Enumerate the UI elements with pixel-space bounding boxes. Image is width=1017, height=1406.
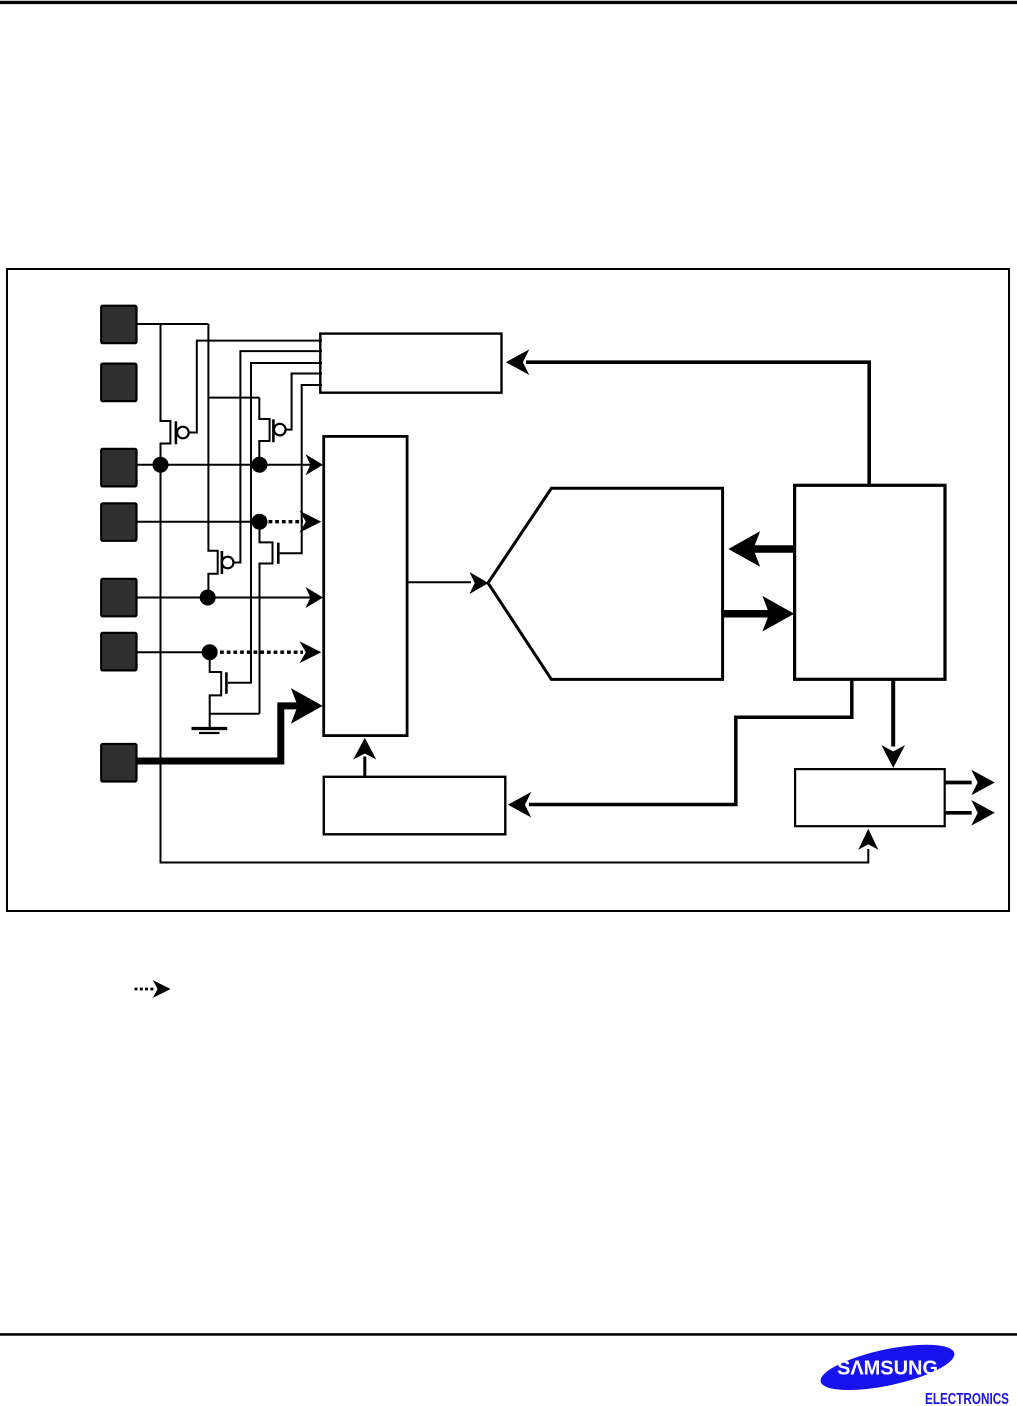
svg-text:SΛMSUNG: SΛMSUNG [837,1357,938,1379]
svg-text:ELECTRONICS: ELECTRONICS [925,1391,1009,1406]
